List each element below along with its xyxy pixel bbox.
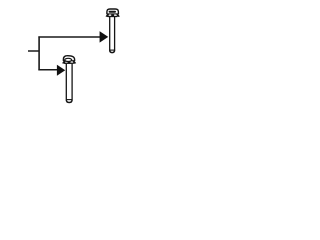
bolt B2 head xyxy=(62,56,76,64)
wire vertical trunk xyxy=(38,36,40,70)
arrowhead to bolt B2 xyxy=(57,65,64,75)
bolt B1 head xyxy=(106,9,120,17)
wire bottom leader xyxy=(38,69,58,71)
wire top leader xyxy=(38,36,100,38)
arrowhead to bolt B1 xyxy=(100,32,108,42)
wire left tick xyxy=(28,50,39,52)
bolt B2 shaft xyxy=(66,64,72,103)
bolt B1 shaft xyxy=(109,16,115,52)
